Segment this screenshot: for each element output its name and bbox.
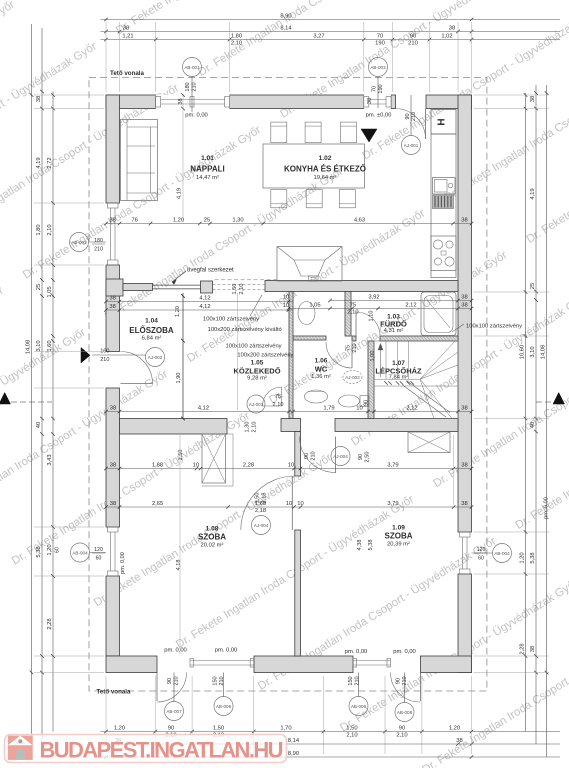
svg-text:25: 25 xyxy=(204,217,210,223)
svg-text:NAPPALI: NAPPALI xyxy=(190,165,225,174)
svg-text:AB-005: AB-005 xyxy=(216,704,232,709)
svg-text:60: 60 xyxy=(96,556,102,562)
svg-text:210: 210 xyxy=(352,343,358,352)
svg-text:1.01: 1.01 xyxy=(201,155,214,162)
svg-text:2,10: 2,10 xyxy=(347,310,358,316)
svg-text:1,50: 1,50 xyxy=(346,725,357,731)
svg-text:100x100 zártszelvény: 100x100 zártszelvény xyxy=(466,324,522,330)
svg-text:120: 120 xyxy=(477,547,486,553)
svg-text:210: 210 xyxy=(355,676,361,685)
svg-text:10: 10 xyxy=(286,501,292,507)
svg-text:10: 10 xyxy=(283,295,289,301)
svg-text:3,10: 3,10 xyxy=(530,346,536,357)
svg-text:1,30: 1,30 xyxy=(232,217,243,223)
svg-text:1.08: 1.08 xyxy=(206,526,219,533)
svg-text:60: 60 xyxy=(478,556,484,562)
svg-text:SZOBA: SZOBA xyxy=(385,532,413,541)
svg-text:Tető vonala: Tető vonala xyxy=(97,689,131,696)
svg-text:70: 70 xyxy=(377,33,383,39)
svg-text:38: 38 xyxy=(530,646,536,652)
svg-text:210: 210 xyxy=(408,41,418,47)
svg-text:4,12: 4,12 xyxy=(198,405,209,411)
svg-text:AB-003: AB-003 xyxy=(370,65,386,70)
svg-text:100x100 zártszelvény: 100x100 zártszelvény xyxy=(203,317,259,323)
svg-text:210: 210 xyxy=(100,357,109,363)
svg-text:1,20: 1,20 xyxy=(173,217,184,223)
svg-text:90: 90 xyxy=(168,725,174,731)
svg-text:2,28: 2,28 xyxy=(47,618,53,629)
svg-text:2,10: 2,10 xyxy=(47,224,53,235)
svg-text:1.09: 1.09 xyxy=(392,525,405,532)
svg-text:4,18: 4,18 xyxy=(176,560,182,571)
svg-text:10: 10 xyxy=(356,405,362,411)
svg-text:1,21: 1,21 xyxy=(122,33,133,39)
svg-text:BUDAPEST.INGATLAN.HU: BUDAPEST.INGATLAN.HU xyxy=(40,738,284,763)
svg-text:AB-008: AB-008 xyxy=(397,710,413,715)
svg-text:10,60: 10,60 xyxy=(520,345,526,360)
svg-text:1,20: 1,20 xyxy=(520,552,526,563)
svg-text:2,10: 2,10 xyxy=(239,284,245,295)
svg-text:5,38: 5,38 xyxy=(530,552,536,563)
svg-text:19,64 m²: 19,64 m² xyxy=(314,175,337,181)
svg-text:pm. 0,00: pm. 0,00 xyxy=(164,648,187,654)
svg-text:20,39 m²: 20,39 m² xyxy=(387,542,410,548)
svg-text:210: 210 xyxy=(411,112,417,121)
svg-text:pm. 0,00: pm. 0,00 xyxy=(120,552,126,574)
svg-text:90: 90 xyxy=(304,453,310,459)
svg-text:75: 75 xyxy=(350,302,356,308)
svg-text:1,20: 1,20 xyxy=(449,725,460,731)
svg-text:1,20: 1,20 xyxy=(114,725,125,731)
svg-text:210: 210 xyxy=(219,676,225,685)
svg-text:1,36 m²: 1,36 m² xyxy=(311,374,331,380)
svg-text:AB-007: AB-007 xyxy=(166,709,182,714)
svg-text:2,10: 2,10 xyxy=(273,402,284,408)
svg-text:8,90: 8,90 xyxy=(288,751,299,757)
svg-text:2,10: 2,10 xyxy=(396,733,407,739)
svg-text:1,02: 1,02 xyxy=(441,33,452,39)
svg-text:1.04: 1.04 xyxy=(145,318,158,325)
svg-text:38: 38 xyxy=(461,302,467,308)
svg-text:38: 38 xyxy=(461,462,467,468)
svg-text:10: 10 xyxy=(193,462,199,468)
svg-text:pm. 0,00: pm. 0,00 xyxy=(215,648,238,654)
svg-text:180: 180 xyxy=(94,238,103,244)
svg-text:10: 10 xyxy=(297,501,303,507)
svg-text:1,30: 1,30 xyxy=(245,422,251,433)
svg-text:100x200 zártszelvény kiváltó: 100x200 zártszelvény kiváltó xyxy=(208,327,282,333)
svg-text:7,84 m²: 7,84 m² xyxy=(389,375,409,381)
svg-text:Tető vonala: Tető vonala xyxy=(110,70,144,77)
svg-text:38: 38 xyxy=(530,96,536,102)
svg-text:1,50: 1,50 xyxy=(213,725,224,731)
svg-text:2,10: 2,10 xyxy=(231,41,242,47)
svg-text:90: 90 xyxy=(396,678,402,684)
svg-text:70: 70 xyxy=(372,86,378,92)
svg-text:1,05: 1,05 xyxy=(309,302,320,308)
svg-text:5,38: 5,38 xyxy=(368,540,374,551)
svg-text:4,19: 4,19 xyxy=(530,188,536,199)
svg-text:2,12: 2,12 xyxy=(405,302,416,308)
svg-text:AB-004: AB-004 xyxy=(72,550,88,555)
svg-text:2,10: 2,10 xyxy=(346,733,357,739)
svg-text:8,90: 8,90 xyxy=(280,13,291,19)
svg-text:1,20: 1,20 xyxy=(47,544,53,555)
svg-text:2,28: 2,28 xyxy=(243,462,254,468)
svg-text:3,43: 3,43 xyxy=(47,454,53,465)
svg-text:25: 25 xyxy=(36,284,42,290)
svg-text:190: 190 xyxy=(375,41,385,47)
svg-text:210: 210 xyxy=(402,676,408,685)
svg-text:38: 38 xyxy=(178,98,184,104)
svg-text:5,38: 5,38 xyxy=(36,546,42,557)
svg-text:150: 150 xyxy=(213,676,219,685)
svg-text:SZOBA: SZOBA xyxy=(198,533,226,542)
svg-text:6,84 m²: 6,84 m² xyxy=(142,336,162,342)
svg-text:1,60: 1,60 xyxy=(47,340,53,351)
svg-text:4,31 m²: 4,31 m² xyxy=(384,328,404,334)
svg-text:üvegfal szerkezet: üvegfal szerkezet xyxy=(187,268,234,274)
svg-text:1,10: 1,10 xyxy=(369,311,375,322)
svg-text:pm. 0,00: pm. 0,00 xyxy=(393,649,416,655)
svg-text:1,79: 1,79 xyxy=(323,405,334,411)
svg-text:14,47 m²: 14,47 m² xyxy=(196,175,219,181)
svg-text:WC: WC xyxy=(315,365,328,374)
svg-text:4,12: 4,12 xyxy=(199,304,210,310)
svg-text:1,70: 1,70 xyxy=(280,725,291,731)
svg-text:1,20: 1,20 xyxy=(175,306,181,317)
svg-text:1,05: 1,05 xyxy=(47,286,53,297)
svg-text:2,50: 2,50 xyxy=(364,452,370,463)
svg-text:KONYHA ÉS ÉTKEZŐ: KONYHA ÉS ÉTKEZŐ xyxy=(284,165,366,174)
svg-text:38: 38 xyxy=(110,501,116,507)
svg-text:2,10: 2,10 xyxy=(252,422,258,433)
svg-text:14,08: 14,08 xyxy=(541,345,547,360)
svg-text:1.02: 1.02 xyxy=(319,155,332,162)
svg-text:1,60: 1,60 xyxy=(255,501,266,507)
svg-text:75: 75 xyxy=(346,345,352,351)
svg-text:180: 180 xyxy=(185,82,191,91)
svg-text:4,38: 4,38 xyxy=(357,540,363,551)
svg-text:AB-002: AB-002 xyxy=(71,240,87,245)
svg-text:25: 25 xyxy=(530,283,536,289)
svg-text:AB-004: AB-004 xyxy=(494,551,510,556)
svg-text:90: 90 xyxy=(364,400,370,406)
svg-text:pm. 0,00: pm. 0,00 xyxy=(185,113,208,119)
svg-text:38: 38 xyxy=(456,738,462,744)
svg-text:20,02 m²: 20,02 m² xyxy=(201,543,224,549)
svg-text:38: 38 xyxy=(461,217,467,223)
svg-text:210: 210 xyxy=(311,451,317,460)
svg-text:1,80: 1,80 xyxy=(36,224,42,235)
svg-text:9,28 m²: 9,28 m² xyxy=(247,376,267,382)
svg-text:14,08: 14,08 xyxy=(26,340,32,355)
svg-text:38: 38 xyxy=(461,294,467,300)
svg-text:38: 38 xyxy=(461,501,467,507)
svg-text:190: 190 xyxy=(378,84,384,93)
svg-text:3,27: 3,27 xyxy=(313,33,324,39)
svg-text:2,28: 2,28 xyxy=(520,643,526,654)
svg-text:76: 76 xyxy=(131,217,137,223)
svg-text:8,14: 8,14 xyxy=(288,738,300,744)
svg-text:1,88: 1,88 xyxy=(152,462,163,468)
svg-text:38: 38 xyxy=(36,96,42,102)
svg-text:210: 210 xyxy=(174,676,180,685)
svg-text:2,18: 2,18 xyxy=(255,508,266,514)
svg-text:AJ-004: AJ-004 xyxy=(333,454,348,459)
svg-text:pm. 0,00: pm. 0,00 xyxy=(345,649,368,655)
svg-text:38: 38 xyxy=(461,405,467,411)
svg-text:3,79: 3,79 xyxy=(387,501,398,507)
svg-text:2,72: 2,72 xyxy=(47,157,53,168)
svg-text:60: 60 xyxy=(55,547,61,553)
svg-text:120: 120 xyxy=(94,547,103,553)
svg-text:3,10: 3,10 xyxy=(36,340,42,351)
svg-text:38: 38 xyxy=(110,462,116,468)
svg-text:ELŐSZOBA: ELŐSZOBA xyxy=(129,326,174,335)
svg-text:AB-001: AB-001 xyxy=(184,65,200,70)
svg-text:1,80: 1,80 xyxy=(231,33,242,39)
svg-text:2,12: 2,12 xyxy=(406,405,417,411)
svg-text:38: 38 xyxy=(123,25,129,31)
svg-text:1,90: 1,90 xyxy=(176,373,182,384)
svg-text:40: 40 xyxy=(530,422,536,428)
svg-text:AB-006: AB-006 xyxy=(351,704,367,709)
svg-text:100x200 zártszelvény: 100x200 zártszelvény xyxy=(237,353,293,359)
svg-text:AJ-002: AJ-002 xyxy=(148,355,163,360)
svg-text:38: 38 xyxy=(449,25,455,31)
svg-text:KÖZLEKEDŐ: KÖZLEKEDŐ xyxy=(233,367,280,376)
svg-text:38: 38 xyxy=(109,217,115,223)
svg-text:AJ-001: AJ-001 xyxy=(404,143,419,148)
svg-text:38: 38 xyxy=(367,98,373,104)
svg-text:AJ-004: AJ-004 xyxy=(254,523,269,528)
svg-text:90: 90 xyxy=(358,454,364,460)
svg-text:90: 90 xyxy=(399,725,405,731)
svg-text:210: 210 xyxy=(192,82,198,91)
svg-text:1.06: 1.06 xyxy=(315,358,328,365)
svg-text:3,79: 3,79 xyxy=(387,462,398,468)
svg-text:1,50: 1,50 xyxy=(232,284,238,295)
svg-text:4,63: 4,63 xyxy=(354,217,365,223)
svg-text:38: 38 xyxy=(109,304,115,310)
svg-text:90: 90 xyxy=(167,678,173,684)
svg-text:75: 75 xyxy=(275,394,281,400)
svg-text:90: 90 xyxy=(410,33,416,39)
svg-text:2,65: 2,65 xyxy=(152,501,163,507)
svg-text:3,92: 3,92 xyxy=(368,294,379,300)
svg-text:10: 10 xyxy=(288,462,294,468)
svg-text:100x100 zártszelvény: 100x100 zártszelvény xyxy=(226,344,282,350)
svg-text:38: 38 xyxy=(109,295,115,301)
svg-text:AJ-002: AJ-002 xyxy=(345,375,360,380)
svg-text:pm. ±0,00: pm. ±0,00 xyxy=(366,113,392,119)
svg-text:AJ-003: AJ-003 xyxy=(249,402,264,407)
svg-text:10: 10 xyxy=(283,303,289,309)
svg-text:1.05: 1.05 xyxy=(251,360,264,367)
svg-text:210: 210 xyxy=(94,247,103,253)
svg-text:38: 38 xyxy=(110,405,116,411)
svg-text:4,12: 4,12 xyxy=(199,295,210,301)
svg-text:4,19: 4,19 xyxy=(177,188,183,199)
svg-text:150: 150 xyxy=(348,676,354,685)
svg-text:40: 40 xyxy=(36,422,42,428)
svg-text:4,19: 4,19 xyxy=(36,157,42,168)
svg-text:H: H xyxy=(436,118,447,125)
svg-text:1,00: 1,00 xyxy=(370,351,376,362)
svg-text:8,14: 8,14 xyxy=(280,25,292,31)
svg-text:1,50: 1,50 xyxy=(178,450,184,461)
